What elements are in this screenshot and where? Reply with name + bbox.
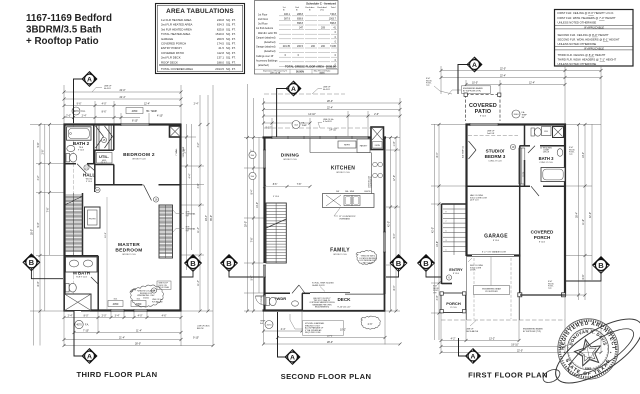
svg-text:4050: 4050 (132, 109, 138, 113)
svg-text:11'-4": 11'-4" (197, 280, 200, 286)
svg-text:2070: 2070 (267, 325, 273, 327)
svg-text:ENTRY: ENTRY (449, 267, 463, 272)
plan2 dims left (244, 84, 264, 311)
svg-text:12'-4": 12'-4" (144, 102, 150, 105)
m bath vanity (66, 257, 98, 272)
svg-text:2014.5: 2014.5 (215, 67, 224, 71)
svg-text:& 3rd FLR: & 3rd FLR (323, 120, 332, 123)
svg-text:BY SUPPLIER (TYP.): BY SUPPLIER (TYP.) (523, 331, 541, 333)
stamp star (572, 337, 603, 367)
svg-text:1st FLR HEATED AREA: 1st FLR HEATED AREA (161, 18, 192, 22)
svg-text:9'-0": 9'-0" (37, 222, 40, 227)
svg-text:2'-4": 2'-4" (82, 114, 87, 117)
svg-text:SQ. FT.: SQ. FT. (226, 67, 236, 71)
line of 4th and 3rd flr note (264, 127, 384, 129)
svg-text:22'-4": 22'-4" (327, 106, 333, 109)
svg-text:Ceilings over 15': Ceilings over 15' (256, 55, 274, 58)
svg-text:4'-4": 4'-4" (281, 328, 286, 331)
svg-text:COVERED PATIO: COVERED PATIO (161, 51, 185, 55)
svg-text:WOOD 9' CLG: WOOD 9' CLG (122, 254, 136, 256)
bath2 door (77, 164, 87, 174)
svg-text:K.B.: K.B. (114, 299, 118, 301)
svg-text:10'-8": 10'-8" (105, 232, 107, 238)
svg-text:22'-0": 22'-0" (517, 349, 523, 352)
svg-text:W.H.: W.H. (556, 124, 560, 126)
svg-text:HALL: HALL (83, 173, 95, 178)
svg-text:SECOND FLR. CEILING @ 8'-0" HE: SECOND FLR. CEILING @ 8'-0" HEIGHT (558, 33, 610, 37)
svg-text:8'-4": 8'-4" (393, 285, 396, 290)
bath2 toilet (66, 154, 70, 162)
kitchen right counter + cooktop (371, 153, 373, 208)
svg-text:FOYER: FOYER (261, 296, 263, 303)
m bath toilet (66, 284, 70, 292)
svg-text:11'-4": 11'-4" (197, 227, 200, 233)
kitchen counters top (310, 152, 371, 154)
svg-text:CIRCLE: CIRCLE (543, 152, 550, 154)
countertop overhang note (334, 208, 340, 216)
svg-text:1510.0: 1510.0 (215, 32, 224, 36)
svg-text:174.5: 174.5 (217, 42, 225, 46)
plan2 left wall windows (263, 150, 265, 305)
svg-text:COVERED: COVERED (531, 230, 554, 235)
window tags 4050 in master (108, 301, 123, 307)
line of deck above (441, 319, 565, 321)
svg-text:4070: 4070 (76, 324, 82, 327)
svg-text:3: 3 (446, 240, 447, 242)
util closet (97, 153, 113, 164)
svg-text:HD. TEMP.: HD. TEMP. (146, 111, 158, 113)
left FA tags (249, 151, 256, 158)
plan2 top window strip (272, 136, 368, 138)
plan2 dims bottom (264, 311, 401, 345)
svg-text:CLOS.: CLOS. (523, 171, 525, 177)
section marker A plan1 bottom (74, 311, 97, 363)
pwdr sink (292, 301, 299, 306)
svg-text:137.1: 137.1 (217, 56, 225, 60)
svg-text:PATIO: PATIO (475, 109, 492, 115)
svg-text:8'-0": 8'-0" (37, 281, 40, 286)
svg-text:5/10/21: 5/10/21 (143, 297, 149, 299)
svg-text:1003.7: 1003.7 (329, 17, 337, 20)
svg-text:5263: 5263 (585, 366, 592, 370)
svg-text:4'-2": 4'-2" (451, 337, 456, 340)
svg-text:KITCHEN: KITCHEN (331, 166, 355, 172)
svg-text:2'-6": 2'-6" (374, 113, 379, 116)
svg-text:2'-0": 2'-0" (66, 114, 71, 117)
svg-text:56.00%: 56.00% (296, 71, 305, 74)
svg-text:BATH 2: BATH 2 (73, 141, 90, 146)
svg-text:29'-0": 29'-0" (244, 221, 247, 227)
pwdr toilet (266, 298, 269, 306)
svg-text:UNLESS NOTED OTHERWISE: UNLESS NOTED OTHERWISE (558, 21, 597, 25)
svg-text:Total: Total (331, 6, 336, 9)
m bath door (91, 277, 98, 284)
svg-text:BELOW: BELOW (197, 328, 204, 330)
svg-text:4070: 4070 (73, 110, 79, 113)
garage engineered beam note (474, 286, 510, 295)
interior walls plan3 (467, 125, 566, 297)
svg-text:4050: 4050 (113, 302, 119, 306)
svg-text:(detached): (detached) (264, 50, 276, 53)
svg-text:COOKTOP W: COOKTOP W (371, 176, 373, 187)
svg-text:LDR 4.4.3B: LDR 4.4.3B (270, 73, 281, 75)
svg-text:F.A.: F.A. (82, 110, 86, 113)
svg-text:WOOD 9' CLG: WOOD 9' CLG (132, 159, 146, 161)
svg-text:2'-6": 2'-6" (368, 323, 373, 326)
svg-text:TYP.: TYP. (186, 216, 190, 218)
svg-text:4'-0": 4'-0" (436, 295, 439, 300)
plan1 window top (4050) (121, 123, 149, 125)
svg-text:7'-6": 7'-6" (46, 207, 49, 212)
entry / stair structure (442, 204, 467, 284)
svg-text:FIRST FLR. CEILING @ 8'-0" HEI: FIRST FLR. CEILING @ 8'-0" HEIGHT U.N.O. (558, 11, 615, 15)
svg-text:REV. 5/10/21: REV. 5/10/21 (363, 262, 374, 264)
signature flourish (541, 307, 640, 394)
svg-text:8' CLG: 8' CLG (480, 116, 487, 118)
svg-text:5'-4": 5'-4" (393, 233, 396, 238)
svg-text:8'-4": 8'-4" (436, 152, 439, 157)
svg-text:21.5: 21.5 (218, 46, 224, 50)
svg-text:BY SUPPLIER: BY SUPPLIER (485, 291, 498, 293)
svg-text:9' CLG: 9' CLG (86, 181, 93, 183)
pantry closet box (85, 207, 101, 228)
bath3 door (528, 146, 535, 153)
svg-text:288.8: 288.8 (297, 13, 304, 16)
svg-text:19'-10": 19'-10" (511, 343, 519, 346)
svg-text:FURN: FURN (375, 145, 381, 147)
svg-text:8' CLG: 8' CLG (539, 242, 546, 244)
svg-text:(2) R' CLG: (2) R' CLG (470, 200, 479, 202)
stairs plan1 left (65, 193, 83, 255)
svg-text:7'-8": 7'-8" (297, 184, 302, 186)
svg-text:BY SUPPLIER (TYP.): BY SUPPLIER (TYP.) (463, 91, 481, 93)
svg-text:219.35: 219.35 (283, 45, 291, 48)
svg-text:PORCH: PORCH (534, 235, 551, 240)
svg-text:28'-0": 28'-0" (327, 341, 333, 344)
engineered beams note top (462, 86, 491, 94)
svg-text:347: 347 (299, 27, 304, 30)
ceiling heights notes box (555, 10, 634, 67)
svg-text:9'-10": 9'-10" (193, 336, 199, 339)
revision cloud bottom plan2 (361, 316, 380, 329)
section marker B plan2 right (386, 255, 407, 277)
svg-text:2nd FLR: 2nd FLR (487, 133, 495, 135)
svg-text:TYP.: TYP. (186, 231, 190, 233)
svg-text:10'-0": 10'-0" (472, 81, 478, 84)
plan2 outer walls (263, 137, 387, 312)
svg-text:1: 1 (446, 250, 447, 252)
svg-text:ENGINEERED BEAM: ENGINEERED BEAM (482, 287, 501, 290)
pwdr room (265, 293, 311, 311)
svg-text:2nd Floor: 2nd Floor (258, 18, 268, 21)
svg-text:TOTAL COVERED AREA: TOTAL COVERED AREA (161, 67, 193, 71)
revision cloud plan1 (130, 285, 164, 307)
svg-text:17'-0": 17'-0" (393, 175, 396, 181)
svg-text:SQ. FT.: SQ. FT. (226, 42, 236, 46)
svg-text:THIRD FLR. WDW. HEADERS @ 7'-1: THIRD FLR. WDW. HEADERS @ 7'-1" HEIGHT (558, 57, 617, 61)
plan1 windows bottom (111, 309, 147, 311)
svg-text:WOOD 9' CLG: WOOD 9' CLG (283, 159, 297, 161)
svg-text:Schedule C - Itemized: Schedule C - Itemized (306, 2, 336, 6)
svg-text:9: 9 (446, 212, 447, 214)
plan2 dims top (264, 98, 401, 260)
svg-text:9' CLG: 9' CLG (273, 196, 280, 198)
svg-text:DECK: DECK (337, 297, 351, 302)
svg-text:DOOR: DOOR (470, 270, 476, 272)
svg-text:200.5: 200.5 (297, 45, 304, 48)
svg-text:4th FLR: 4th FLR (104, 87, 111, 90)
tag circle 4070 top (72, 107, 80, 115)
guardrail note (303, 321, 344, 336)
svg-text:10'-2": 10'-2" (340, 329, 346, 332)
half clos note garage (470, 194, 488, 202)
svg-text:658.8: 658.8 (297, 17, 304, 20)
chimney box top right (170, 126, 181, 137)
svg-text:20'-4": 20'-4" (205, 215, 208, 221)
svg-text:2'-8": 2'-8" (42, 149, 45, 154)
svg-text:ROOF PLAN: ROOF PLAN (159, 286, 170, 289)
svg-text:SQ. FT.: SQ. FT. (226, 23, 236, 27)
svg-text:Wall dbl. subtr 5%: Wall dbl. subtr 5% (258, 32, 278, 35)
plan1 dimension lines bottom (64, 311, 213, 346)
svg-text:TYP.: TYP. (548, 288, 552, 290)
svg-text:ROOF DECK: ROOF DECK (161, 60, 178, 64)
shelf note bath (540, 148, 553, 154)
bath2 sink (67, 145, 75, 151)
svg-text:GARAGE: GARAGE (161, 37, 173, 41)
svg-text:2'-4": 2'-4" (194, 102, 199, 105)
section marker A plan2 top (277, 81, 301, 137)
section marker B plan2 left (221, 255, 263, 277)
schedule C worksheet table (255, 1, 339, 75)
section marker B plan3 right (566, 257, 609, 281)
svg-text:4'-8": 4'-8" (197, 183, 200, 188)
svg-text:flr: flr (309, 8, 311, 11)
svg-text:3rd Floor: 3rd Floor (258, 23, 268, 26)
svg-text:35'-0": 35'-0" (210, 215, 213, 221)
m bath shower (65, 294, 92, 311)
svg-text:REF'R: REF'R (344, 145, 351, 147)
svg-text:SQ. FT.: SQ. FT. (226, 56, 236, 60)
studio window tag (510, 144, 515, 149)
svg-text:STUDIO/: STUDIO/ (486, 149, 505, 154)
svg-text:BEDROOM 2: BEDROOM 2 (123, 152, 155, 158)
svg-text:7'-6": 7'-6" (250, 237, 253, 242)
covered patio dashed outline (466, 95, 501, 122)
svg-text:42'-0": 42'-0" (589, 212, 592, 218)
svg-text:7: 7 (446, 221, 447, 223)
svg-text:(2) 9' C: (2) 9' C (101, 162, 108, 164)
8x8 wood post note top-left (426, 78, 432, 87)
svg-text:REQ'D PER CODE: REQ'D PER CODE (305, 332, 321, 334)
svg-text:7' WALL: 7' WALL (175, 147, 178, 155)
svg-text:CONC. 8' CLG: CONC. 8' CLG (488, 161, 502, 163)
svg-text:8' CLG: 8' CLG (450, 307, 457, 309)
svg-text:35'-0": 35'-0" (30, 229, 33, 235)
svg-text:22'-0": 22'-0" (119, 89, 125, 92)
plan1 dimension lines left (30, 124, 64, 346)
svg-text:2'-0": 2'-0" (102, 314, 107, 317)
svg-text:658.8: 658.8 (330, 22, 337, 25)
svg-text:14'-10": 14'-10" (308, 113, 316, 116)
plan1 dimension lines top (64, 85, 213, 346)
svg-text:F.A.: F.A. (260, 322, 264, 325)
svg-text:WOOD 9' CLG: WOOD 9' CLG (336, 172, 350, 174)
svg-text:PORCH: PORCH (446, 301, 461, 306)
svg-text:3rd FLR HEATED AREA: 3rd FLR HEATED AREA (161, 27, 192, 31)
svg-text:FLR BELOW: FLR BELOW (152, 301, 163, 303)
sheet title text (26, 13, 112, 47)
svg-text:22'-0": 22'-0" (500, 67, 506, 70)
svg-text:10'-8": 10'-8" (436, 241, 439, 247)
svg-text:74.86: 74.86 (330, 45, 337, 48)
window revision cloud right (356, 251, 377, 265)
stairs plan3 (443, 204, 466, 255)
svg-text:746.8: 746.8 (330, 13, 337, 16)
plan3 dims top (441, 66, 601, 259)
plan1 sliding door bottom-left (74, 310, 90, 312)
svg-text:28'-0": 28'-0" (327, 100, 333, 103)
svg-text:4'-6": 4'-6" (162, 314, 167, 317)
svg-text:2040: 2040 (514, 114, 520, 116)
svg-text:TYP.: TYP. (426, 85, 430, 87)
svg-text:4'-10": 4'-10" (157, 114, 163, 117)
svg-text:(MAX): (MAX) (319, 72, 325, 75)
svg-text:SQ. FT.: SQ. FT. (226, 18, 236, 22)
svg-text:249.8: 249.8 (217, 18, 225, 22)
entry tag circle (446, 275, 451, 280)
svg-text:GLASS DOOR: GLASS DOOR (312, 284, 325, 287)
svg-text:COVERED PORCH: COVERED PORCH (161, 42, 186, 46)
svg-text:5'-8": 5'-8" (37, 142, 40, 147)
svg-text:WOOD 9' CLG: WOOD 9' CLG (333, 254, 347, 256)
plan2 right wall window (383, 232, 385, 252)
deck (303, 294, 386, 312)
interior walls plan1 (65, 124, 182, 311)
svg-text:F.A.: F.A. (85, 324, 89, 327)
svg-text:8' CLG: 8' CLG (493, 240, 500, 242)
stamp outer rope ring (558, 319, 618, 379)
svg-text:634.3: 634.3 (217, 23, 225, 27)
svg-text:8' x 7' O.H. GARAGE DOOR: 8' x 7' O.H. GARAGE DOOR (482, 251, 507, 254)
line of 2nd flr (468, 135, 518, 137)
svg-text:14'-10": 14'-10" (329, 129, 337, 132)
svg-text:4'-4": 4'-4" (188, 173, 191, 178)
section marker B plan1 right (182, 255, 202, 277)
svg-text:13'-2": 13'-2" (489, 337, 495, 340)
svg-text:BEDRM 3: BEDRM 3 (485, 154, 506, 159)
svg-text:28'-0": 28'-0" (135, 342, 141, 345)
section marker A plan3 bottom (459, 338, 481, 363)
svg-text:4'-0": 4'-0" (102, 102, 107, 105)
8x8 wood post note right (569, 147, 575, 156)
plan1 dimension lines right (181, 95, 213, 311)
pwdr door (292, 285, 299, 293)
svg-text:1167-1169 Bedford: 1167-1169 Bedford (26, 13, 112, 24)
section marker A plan3 top (458, 57, 482, 94)
svg-text:DECK ABOVE: DECK ABOVE (466, 330, 479, 333)
svg-text:SQ. FT.: SQ. FT. (226, 46, 236, 50)
plan3 outer walls (466, 124, 567, 297)
svg-text:35'-4": 35'-4" (575, 212, 578, 218)
svg-text:K.B.: K.B. (137, 299, 141, 301)
svg-text:M BATH: M BATH (73, 271, 90, 276)
svg-text:SQ. FT.: SQ. FT. (226, 32, 236, 36)
svg-text:4x4 TEMP GL: 4x4 TEMP GL (462, 146, 464, 158)
svg-text:6'-6": 6'-6" (582, 274, 585, 279)
svg-text:3BDRM/3.5 Bath: 3BDRM/3.5 Bath (26, 25, 102, 36)
tag circle FA temp plan2 top (292, 121, 300, 129)
porch (441, 293, 466, 313)
studio closet doors (469, 141, 477, 159)
bedroom2 door (144, 185, 152, 201)
bath3 tub (541, 168, 565, 182)
bath3 water heater (553, 127, 564, 138)
svg-text:SECOND FLR. WDW. HEADERS @ 8'-: SECOND FLR. WDW. HEADERS @ 8'-1" HEIGHT (558, 38, 620, 42)
svg-text:FAMILY: FAMILY (330, 248, 350, 254)
plan3 dims left (431, 124, 466, 340)
svg-text:THIRD FLR. CEILING @ 8'-0" HEI: THIRD FLR. CEILING @ 8'-0" HEIGHT (558, 53, 606, 57)
window tag 4050 top (126, 108, 143, 114)
closet doors (bedroom2) (96, 124, 113, 150)
tag circles plan1 (101, 137, 106, 142)
svg-text:5050 TEMP: 5050 TEMP (183, 146, 185, 157)
svg-text:8'-6": 8'-6" (102, 111, 107, 114)
svg-text:✦: ✦ (610, 351, 613, 355)
svg-text:7'-10": 7'-10" (83, 329, 89, 332)
svg-text:SECOND FLOOR PLAN: SECOND FLOOR PLAN (281, 372, 372, 381)
svg-text:8'-4": 8'-4" (250, 189, 253, 194)
bath3 toilet (531, 128, 534, 136)
svg-text:12'-4": 12'-4" (529, 81, 535, 84)
svg-text:209: 209 (321, 27, 326, 30)
svg-text:TOTAL HEATED AREA: TOTAL HEATED AREA (161, 32, 190, 36)
svg-text:4'-2": 4'-2" (197, 142, 200, 147)
svg-text:2'-4": 2'-4" (68, 314, 73, 317)
bath2 tub (67, 127, 92, 140)
8x8 wood post note left (433, 286, 439, 295)
svg-text:22'-4": 22'-4" (119, 96, 125, 99)
svg-text:188.0: 188.0 (217, 60, 225, 64)
plan3 dims right (566, 124, 601, 300)
svg-text:TYP.: TYP. (569, 154, 573, 156)
kitchen island (323, 191, 375, 207)
svg-text:406.1: 406.1 (284, 13, 291, 16)
svg-text:5: 5 (446, 231, 447, 233)
svg-text:2nd FLR HEATED AREA: 2nd FLR HEATED AREA (161, 23, 193, 27)
svg-text:UTIL.: UTIL. (99, 154, 109, 159)
svg-text:1st flr/A deducts: 1st flr/A deducts (256, 27, 274, 30)
see roof deck note (159, 283, 170, 290)
svg-text:TYP.: TYP. (433, 292, 437, 294)
hall/stair door (87, 164, 95, 171)
master inner dim line (106, 197, 108, 310)
svg-text:42'-0": 42'-0" (387, 221, 390, 227)
svg-text:8'-6": 8'-6" (273, 184, 278, 186)
garage door opening (472, 255, 514, 257)
svg-text:4th FLR: 4th FLR (323, 88, 330, 91)
svg-text:658.8: 658.8 (297, 22, 304, 25)
svg-text:Carport (attached): Carport (attached) (256, 36, 276, 39)
svg-text:8' CLG: 8' CLG (453, 273, 460, 275)
svg-text:200: 200 (321, 45, 326, 48)
roof stairs plan1 right (159, 205, 173, 258)
svg-text:(detached): (detached) (264, 41, 276, 44)
driveway lines (466, 256, 468, 320)
svg-text:OVERHANG: OVERHANG (339, 217, 350, 220)
svg-text:1st Floor: 1st Floor (258, 13, 268, 16)
svg-text:SQ. FT.: SQ. FT. (226, 60, 236, 64)
